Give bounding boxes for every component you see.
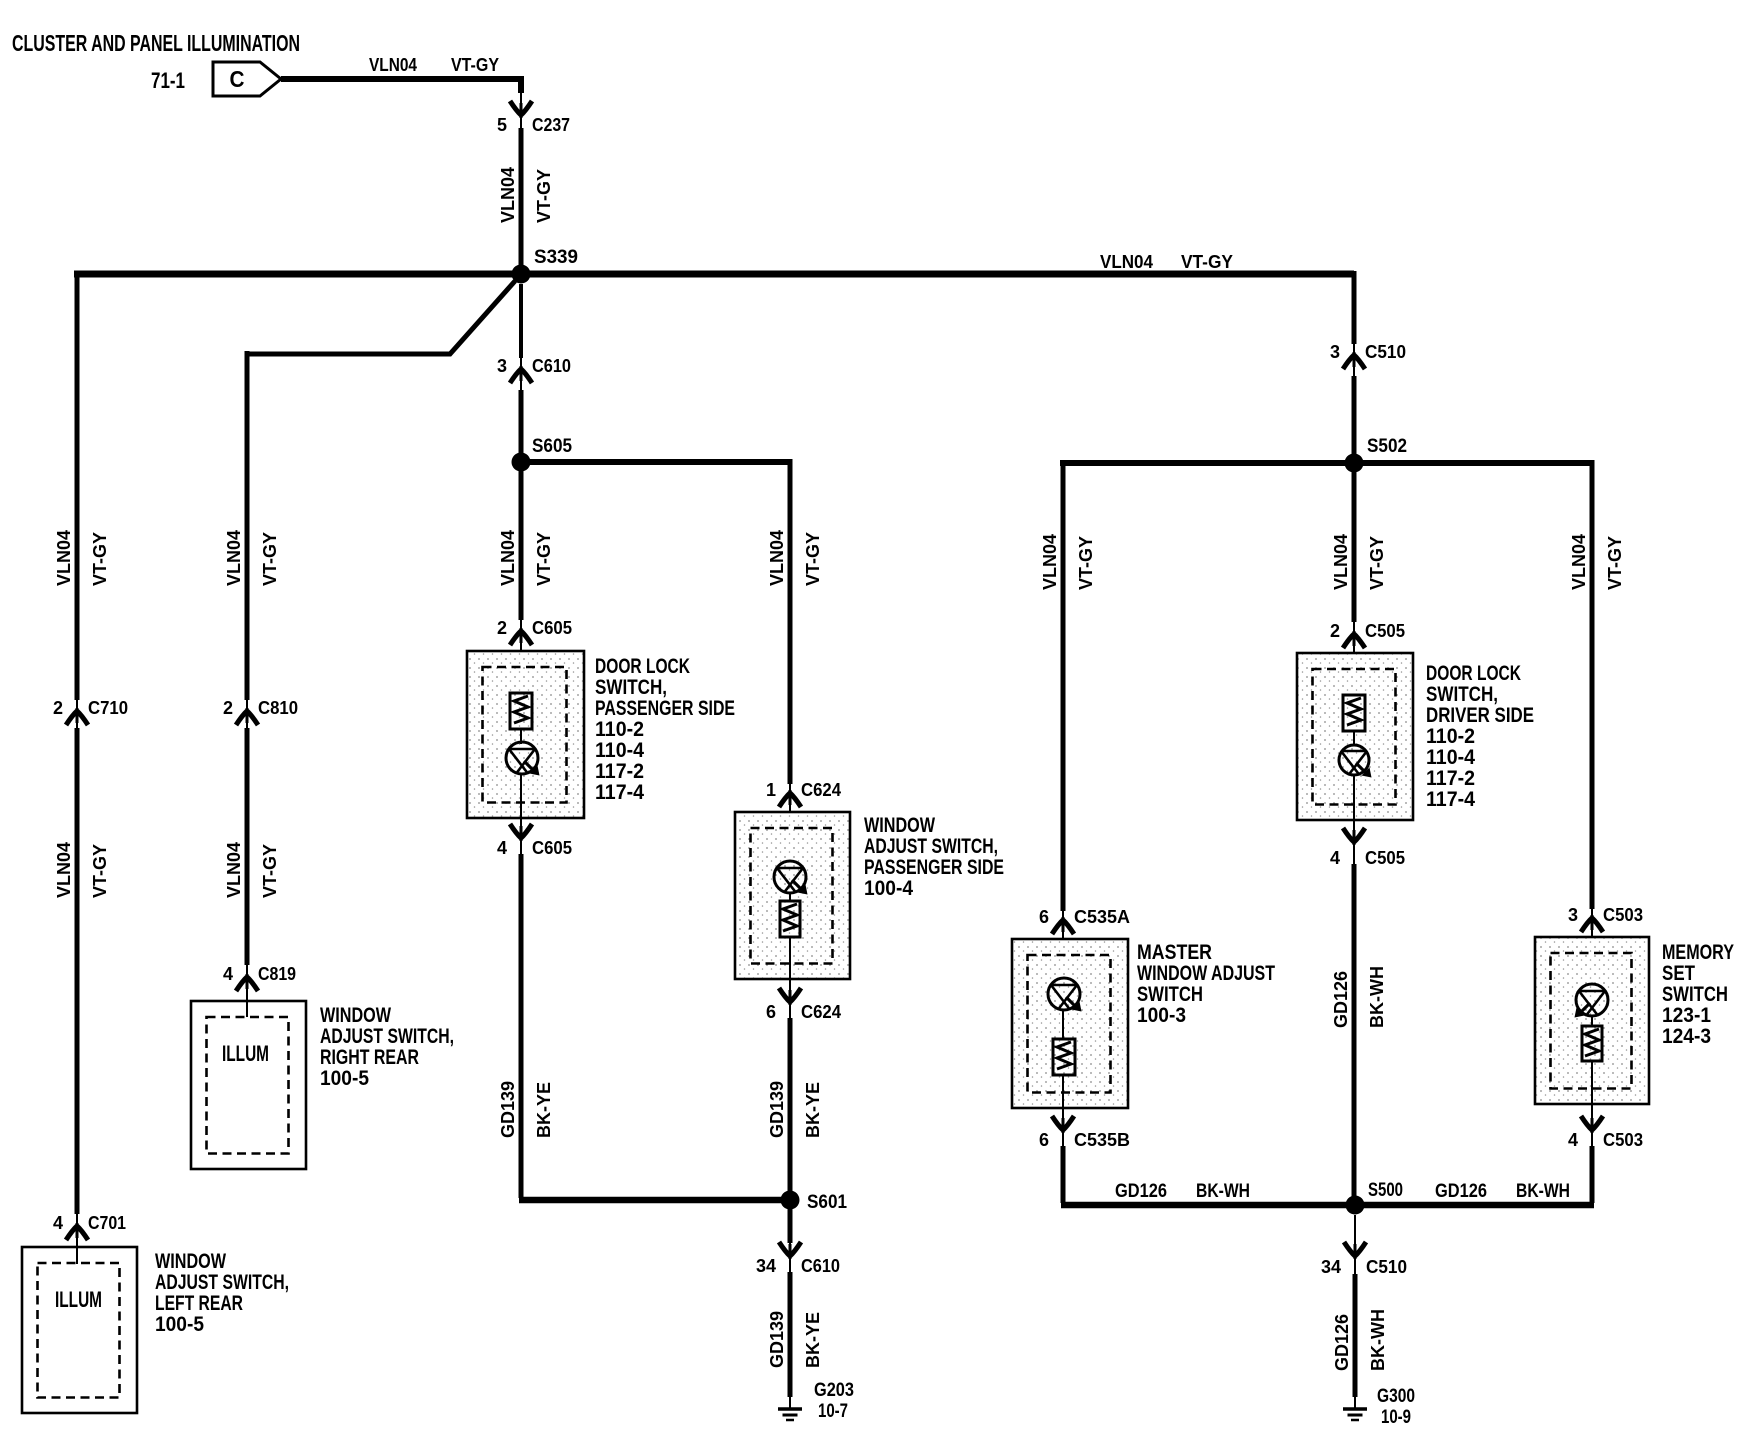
thin wire at C819 into box <box>246 965 248 1017</box>
arrowhead out of C510 pin 34 <box>1344 1242 1366 1256</box>
svg-text:2: 2 <box>53 698 63 718</box>
svg-text:117-4: 117-4 <box>595 781 644 804</box>
svg-text:C505: C505 <box>1365 848 1405 868</box>
text master window adjust switch <box>1137 941 1275 1027</box>
svg-text:C237: C237 <box>532 115 570 135</box>
wire GD139 (C605 down to corner) <box>519 854 524 1198</box>
text door lock switch driver side <box>1426 662 1534 811</box>
bulb in memory set switch <box>1575 984 1609 1018</box>
svg-text:VLN04: VLN04 <box>54 530 74 586</box>
arrowhead out of C610 pin 34 <box>779 1242 801 1256</box>
connector C237 pin 5 <box>497 115 570 135</box>
memory set switch box <box>1535 937 1649 1104</box>
svg-text:BK-WH: BK-WH <box>1367 966 1387 1028</box>
wire VLN04 (S605 to C605) <box>519 467 524 620</box>
connector C605 pin 2 <box>497 618 572 638</box>
thin wire bulb to box bottom (driver door lock) <box>1353 775 1355 828</box>
wire VLN04 from C237 to S339 <box>519 128 524 270</box>
thin wire coil to box bottom (master) <box>1062 1075 1064 1116</box>
svg-text:6: 6 <box>1039 907 1049 927</box>
svg-text:VT-GY: VT-GY <box>90 532 110 586</box>
svg-text:10-9: 10-9 <box>1381 1407 1411 1428</box>
thin wire bulb to box bottom (passenger door lock) <box>520 774 522 824</box>
arrowhead out of C605 pin 4 <box>510 824 532 838</box>
connector C605 pin 4 <box>497 838 572 858</box>
thin wire below S500 <box>1354 1215 1356 1274</box>
wire VLN04 left branch upper (to C710) <box>75 272 80 700</box>
svg-text:SWITCH: SWITCH <box>1662 983 1728 1006</box>
svg-text:100-5: 100-5 <box>320 1067 369 1090</box>
connector C503 pin 3 <box>1568 905 1643 925</box>
connector C624 pin 1 <box>766 780 841 800</box>
svg-text:C605: C605 <box>532 618 572 638</box>
svg-text:124-3: 124-3 <box>1662 1025 1711 1048</box>
svg-text:C810: C810 <box>258 698 298 718</box>
ground G203 label <box>814 1380 854 1422</box>
svg-text:DOOR LOCK: DOOR LOCK <box>1426 662 1521 685</box>
text window adjust switch right rear <box>320 1004 454 1090</box>
svg-text:ADJUST SWITCH,: ADJUST SWITCH, <box>864 835 998 858</box>
labels VLN04 VT-GY S605 branch <box>498 530 554 586</box>
svg-text:G300: G300 <box>1377 1386 1415 1407</box>
connector C701 pin 4 <box>53 1213 126 1233</box>
wire GD126 horizontal to S500 (left) <box>1061 1202 1353 1209</box>
text door lock switch passenger side <box>595 655 735 804</box>
svg-text:GD126: GD126 <box>1332 1314 1352 1371</box>
arrowhead into C510 pin 3 <box>1343 355 1365 369</box>
thin wire at C624 pin 6 <box>789 988 791 1018</box>
thin wire at C701 <box>76 1214 78 1264</box>
svg-text:100-4: 100-4 <box>864 877 913 900</box>
svg-text:VT-GY: VT-GY <box>1367 536 1387 590</box>
svg-text:C610: C610 <box>532 356 571 376</box>
svg-text:S601: S601 <box>807 1192 847 1213</box>
labels VLN04 VT-GY (C237 to S339) <box>498 167 554 223</box>
svg-text:10-7: 10-7 <box>818 1401 848 1422</box>
svg-text:110-4: 110-4 <box>595 739 644 762</box>
wire S502 horizontal to master and memory branches <box>1060 460 1594 466</box>
svg-text:BK-YE: BK-YE <box>534 1082 554 1138</box>
thin wire into ground G300 <box>1354 1397 1356 1409</box>
thin wire at C610 pin 3 <box>520 358 522 390</box>
svg-text:VLN04: VLN04 <box>498 530 518 586</box>
coil in door lock switch passenger <box>510 693 532 729</box>
junction S339 dot <box>512 265 531 284</box>
svg-text:GD126: GD126 <box>1331 971 1351 1028</box>
junction S502 dot <box>1345 454 1364 473</box>
labels GD126 BK-WH driver branch <box>1331 966 1387 1028</box>
wire VLN04 from S339 to C610 <box>519 284 523 358</box>
arrowhead into C535A <box>1052 920 1074 934</box>
coil in memory set switch <box>1582 1026 1602 1061</box>
svg-text:RIGHT REAR: RIGHT REAR <box>320 1046 419 1069</box>
svg-text:5: 5 <box>497 115 507 135</box>
bulb in master window adjust switch <box>1048 978 1082 1012</box>
svg-text:VLN04: VLN04 <box>1331 534 1351 590</box>
thin wire into ground G203 <box>789 1397 791 1409</box>
bulb in door lock switch driver <box>1339 745 1372 778</box>
arrowhead into C605 pin 2 <box>510 631 532 645</box>
svg-text:VLN04: VLN04 <box>224 530 244 586</box>
window adjust switch left rear box <box>22 1247 137 1413</box>
wire drop to memory set switch <box>1590 460 1595 909</box>
arrowhead into C701 <box>66 1226 88 1240</box>
connector C710 pin 2 <box>53 698 128 718</box>
junction S500 dot <box>1346 1196 1365 1215</box>
labels VLN04 VT-GY left lower <box>54 842 110 898</box>
wire GD139 horizontal to S601 <box>519 1197 788 1204</box>
svg-text:117-2: 117-2 <box>1426 767 1475 790</box>
svg-text:C510: C510 <box>1365 342 1406 362</box>
thin wire at C810 <box>246 700 248 728</box>
svg-text:GD139: GD139 <box>767 1081 787 1138</box>
svg-text:C819: C819 <box>258 964 296 984</box>
svg-text:4: 4 <box>53 1213 63 1233</box>
svg-text:GD126: GD126 <box>1115 1181 1167 1202</box>
svg-text:VT-GY: VT-GY <box>803 532 823 586</box>
svg-text:VLN04: VLN04 <box>1569 534 1589 590</box>
svg-text:VT-GY: VT-GY <box>534 169 554 223</box>
thin wire at C503 pin 4 <box>1591 1112 1593 1146</box>
svg-text:ILLUM: ILLUM <box>222 1041 269 1066</box>
wire VLN04 left branch lower (C710 to C701) <box>75 728 80 1214</box>
svg-text:ADJUST SWITCH,: ADJUST SWITCH, <box>320 1025 454 1048</box>
svg-text:C510: C510 <box>1366 1257 1407 1277</box>
text memory set switch <box>1662 941 1734 1048</box>
arrowhead into C810 <box>236 711 258 725</box>
svg-text:2: 2 <box>1330 621 1340 641</box>
wire VLN04 (C810 to C819) <box>245 728 250 965</box>
bulb in window adjust switch passenger <box>774 861 808 895</box>
svg-text:100-5: 100-5 <box>155 1313 204 1336</box>
svg-text:110-2: 110-2 <box>1426 725 1475 748</box>
thin wire coil to box bottom (memory) <box>1591 1061 1593 1112</box>
coil in door lock switch driver <box>1343 695 1365 731</box>
svg-text:3: 3 <box>1568 905 1578 925</box>
connector C624 pin 6 <box>766 1002 841 1022</box>
arrowhead into C237 pin 5 <box>510 101 532 115</box>
ground G300 label <box>1377 1386 1415 1428</box>
svg-text:VT-GY: VT-GY <box>260 532 280 586</box>
svg-text:GD139: GD139 <box>767 1311 787 1368</box>
svg-text:BK-YE: BK-YE <box>803 1312 823 1368</box>
svg-text:C503: C503 <box>1603 905 1643 925</box>
thin wire at C510 pin 3 <box>1353 344 1355 376</box>
thin wire at C710 <box>76 700 78 728</box>
svg-text:PASSENGER SIDE: PASSENGER SIDE <box>864 856 1004 879</box>
thin wire bulb to coil (memory) <box>1591 1016 1593 1026</box>
svg-text:6: 6 <box>1039 1130 1049 1150</box>
svg-text:2: 2 <box>497 618 507 638</box>
ground G300 symbol <box>1343 1409 1367 1420</box>
svg-text:C535A: C535A <box>1074 907 1130 927</box>
off-page connector C (71-1) <box>213 62 281 96</box>
connector C503 pin 4 <box>1568 1130 1643 1150</box>
arrowhead into C505 pin 2 <box>1343 634 1365 648</box>
svg-text:C710: C710 <box>88 698 128 718</box>
svg-text:S339: S339 <box>534 247 578 268</box>
wire GD126 (C505 to S500) <box>1352 864 1357 1202</box>
svg-text:VLN04: VLN04 <box>1100 252 1153 272</box>
thin wire at C610 pin 34 <box>789 1240 791 1272</box>
arrowhead into C503 pin 3 <box>1581 918 1603 932</box>
svg-text:6: 6 <box>766 1002 776 1022</box>
svg-text:DOOR LOCK: DOOR LOCK <box>595 655 690 678</box>
labels VLN04 VT-GY memory branch <box>1569 534 1625 590</box>
svg-text:BK-YE: BK-YE <box>803 1082 823 1138</box>
thin wire at C535B <box>1062 1116 1064 1146</box>
svg-text:110-4: 110-4 <box>1426 746 1475 769</box>
wire drop to C624 <box>788 459 793 784</box>
wire drop to master window switch <box>1061 460 1066 911</box>
diagonal branch wire from S339 <box>247 281 515 354</box>
svg-text:VLN04: VLN04 <box>498 167 518 223</box>
connector C505 pin 4 <box>1330 848 1405 868</box>
text window adjust switch passenger side <box>864 814 1004 900</box>
svg-text:117-2: 117-2 <box>595 760 644 783</box>
svg-text:34: 34 <box>1321 1257 1341 1277</box>
svg-text:3: 3 <box>497 356 507 376</box>
svg-text:VT-GY: VT-GY <box>534 532 554 586</box>
thin wire at C535A into box <box>1062 911 1064 980</box>
junction S601 dot <box>781 1191 800 1210</box>
svg-text:MEMORY: MEMORY <box>1662 941 1734 964</box>
window adjust switch passenger side box <box>735 812 850 979</box>
wire VLN04 (C510 to S502) <box>1352 376 1357 458</box>
svg-text:110-2: 110-2 <box>595 718 644 741</box>
svg-text:S500: S500 <box>1368 1180 1403 1201</box>
thin wire coil to bulb (passenger door lock) <box>520 729 522 744</box>
svg-text:100-3: 100-3 <box>1137 1004 1186 1027</box>
connector C510 pin 3 <box>1330 342 1406 362</box>
arrowhead into C819 <box>236 977 258 991</box>
svg-text:MASTER: MASTER <box>1137 941 1212 964</box>
thin wire at C605 pin 2 into box <box>520 620 522 694</box>
thin wire at C503 pin 3 into box <box>1591 909 1593 984</box>
labels VLN04 VT-GY x247 upper <box>224 530 280 586</box>
labels GD126 BK-WH to ground <box>1332 1309 1388 1371</box>
svg-text:VLN04: VLN04 <box>1040 534 1060 590</box>
svg-text:LEFT REAR: LEFT REAR <box>155 1292 243 1315</box>
arrowhead into C624 pin 1 <box>779 793 801 807</box>
svg-text:4: 4 <box>497 838 507 858</box>
svg-text:71-1: 71-1 <box>151 68 185 93</box>
wire GD139 (C624 to S601) <box>788 1018 793 1200</box>
thin wire coil to bulb (driver door lock) <box>1353 731 1355 746</box>
svg-text:C701: C701 <box>88 1213 126 1233</box>
connector C810 pin 2 <box>223 698 298 718</box>
labels GD139 BK-YE passenger branch <box>767 1081 823 1138</box>
connector C510 pin 34 <box>1321 1257 1407 1277</box>
arrowhead into C610 pin 3 <box>510 369 532 383</box>
svg-text:WINDOW: WINDOW <box>320 1004 391 1027</box>
wire GD126 (C510 to G300) <box>1353 1274 1358 1397</box>
svg-text:GD139: GD139 <box>498 1081 518 1138</box>
labels GD139 BK-YE to ground <box>767 1311 823 1368</box>
connector C505 pin 2 <box>1330 621 1405 641</box>
labels VLN04 VT-GY passenger window branch <box>767 530 823 586</box>
window adjust switch right rear box <box>191 1001 306 1169</box>
thin wire at C624 pin 1 into box <box>789 784 791 862</box>
labels VLN04 VT-GY left upper <box>54 530 110 586</box>
svg-text:VT-GY: VT-GY <box>90 844 110 898</box>
door lock switch passenger side box <box>467 651 584 818</box>
arrowhead into C710 <box>66 711 88 725</box>
arrowhead out of C503 pin 4 <box>1581 1116 1603 1130</box>
wire below S601 to C610 pin 34 <box>788 1200 793 1243</box>
wire VLN04 VT-GY from connector C to corner <box>281 79 521 93</box>
coil in window adjust switch passenger <box>780 901 800 937</box>
svg-text:C624: C624 <box>801 780 841 800</box>
connector C535B pin 6 <box>1039 1130 1130 1150</box>
svg-text:C624: C624 <box>801 1002 841 1022</box>
svg-text:BK-WH: BK-WH <box>1368 1309 1388 1371</box>
thin wire at connector C237 <box>520 93 522 130</box>
arrowhead out of C505 pin 4 <box>1343 828 1365 842</box>
svg-text:4: 4 <box>1568 1130 1578 1150</box>
labels VLN04 VT-GY master branch <box>1040 534 1096 590</box>
svg-text:DRIVER SIDE: DRIVER SIDE <box>1426 704 1534 727</box>
wire VLN04 right drop (bus corner to C510) <box>1352 271 1357 344</box>
wire GD126 horizontal to S500 (right) <box>1357 1202 1594 1209</box>
text window adjust switch left rear <box>155 1250 289 1336</box>
svg-text:S605: S605 <box>532 436 572 457</box>
svg-text:VLN04: VLN04 <box>54 842 74 898</box>
svg-text:2: 2 <box>223 698 233 718</box>
svg-text:SWITCH,: SWITCH, <box>1426 683 1498 706</box>
svg-text:G203: G203 <box>814 1380 854 1401</box>
svg-text:GD126: GD126 <box>1435 1181 1487 1202</box>
main horizontal bus wire at S339 <box>74 271 1354 278</box>
svg-text:BK-WH: BK-WH <box>1196 1181 1250 1202</box>
svg-text:ADJUST SWITCH,: ADJUST SWITCH, <box>155 1271 289 1294</box>
wire GD139 (C610 to G203) <box>788 1272 793 1397</box>
connector C535A pin 6 <box>1039 907 1130 927</box>
connector C819 pin 4 <box>223 964 296 984</box>
ground G203 symbol <box>778 1409 802 1420</box>
svg-text:1: 1 <box>766 780 776 800</box>
thin wire at C605 pin 4 <box>520 824 522 854</box>
svg-text:VLN04: VLN04 <box>369 55 417 75</box>
svg-text:VT-GY: VT-GY <box>451 55 499 75</box>
svg-text:VT-GY: VT-GY <box>1181 252 1233 272</box>
thin wire at C505 pin 2 into box <box>1353 622 1355 696</box>
svg-text:WINDOW ADJUST: WINDOW ADJUST <box>1137 962 1275 985</box>
svg-text:SWITCH,: SWITCH, <box>595 676 667 699</box>
labels GD139 BK-YE left <box>498 1081 554 1138</box>
svg-text:VT-GY: VT-GY <box>260 844 280 898</box>
thin wire at C505 pin 4 <box>1353 828 1355 864</box>
svg-text:C505: C505 <box>1365 621 1405 641</box>
wire VLN04 branch upper (to C810) <box>245 351 250 700</box>
svg-text:BK-WH: BK-WH <box>1516 1181 1570 1202</box>
thin wire coil to box bottom (window adjust passenger) <box>789 937 791 988</box>
svg-text:ILLUM: ILLUM <box>55 1287 102 1312</box>
master window adjust switch box <box>1012 939 1128 1108</box>
svg-text:WINDOW: WINDOW <box>155 1250 226 1273</box>
arrowhead out of C624 pin 6 <box>779 988 801 1002</box>
door lock switch driver side box <box>1297 653 1413 820</box>
wire GD126 (C535B down to corner) <box>1061 1146 1066 1203</box>
connector C610 pin 34 <box>756 1256 840 1276</box>
thin wire bulb to coil (window adjust passenger) <box>789 893 791 901</box>
svg-text:VT-GY: VT-GY <box>1605 536 1625 590</box>
wire VLN04 (S502 to C505) <box>1352 467 1357 622</box>
svg-text:C610: C610 <box>801 1256 840 1276</box>
svg-text:SWITCH: SWITCH <box>1137 983 1203 1006</box>
svg-text:3: 3 <box>1330 342 1340 362</box>
svg-text:C535B: C535B <box>1074 1130 1130 1150</box>
wire GD126 (C503 down to corner) <box>1590 1146 1595 1203</box>
svg-text:123-1: 123-1 <box>1662 1004 1711 1027</box>
svg-text:SET: SET <box>1662 962 1695 985</box>
svg-text:VT-GY: VT-GY <box>1076 536 1096 590</box>
svg-text:VLN04: VLN04 <box>224 842 244 898</box>
svg-text:4: 4 <box>1330 848 1340 868</box>
svg-text:S502: S502 <box>1367 436 1407 457</box>
svg-text:C: C <box>230 66 245 92</box>
svg-text:C503: C503 <box>1603 1130 1643 1150</box>
svg-text:PASSENGER SIDE: PASSENGER SIDE <box>595 697 735 720</box>
bulb in door lock switch passenger <box>506 742 540 776</box>
svg-text:C605: C605 <box>532 838 572 858</box>
wire from S605 horizontal <box>521 459 792 465</box>
labels VLN04 VT-GY driver branch <box>1331 534 1387 590</box>
svg-text:117-4: 117-4 <box>1426 788 1475 811</box>
junction S605 dot <box>512 453 531 472</box>
coil in master window adjust switch <box>1053 1039 1075 1075</box>
arrowhead out of C535B <box>1052 1116 1074 1130</box>
svg-text:34: 34 <box>756 1256 776 1276</box>
labels VLN04 VT-GY x247 lower <box>224 842 280 898</box>
connector C610 pin 3 <box>497 356 571 376</box>
svg-text:4: 4 <box>223 964 233 984</box>
svg-text:WINDOW: WINDOW <box>864 814 935 837</box>
thin wire bulb to coil (master) <box>1062 1010 1064 1039</box>
wire VLN04 (C610 to S605) <box>519 390 524 458</box>
svg-text:CLUSTER AND PANEL ILLUMINATION: CLUSTER AND PANEL ILLUMINATION <box>12 30 300 56</box>
svg-text:VLN04: VLN04 <box>767 530 787 586</box>
